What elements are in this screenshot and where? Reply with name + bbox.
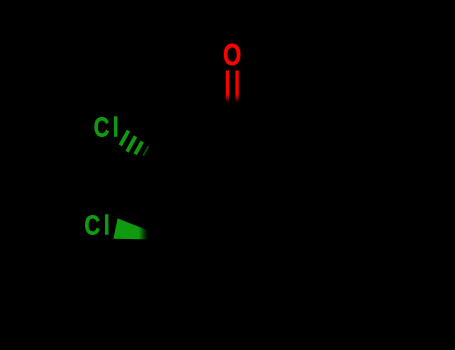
- svg-text:O: O: [223, 37, 241, 72]
- svg-text:C: C: [94, 112, 110, 143]
- svg-text:C: C: [84, 210, 100, 241]
- svg-text:l: l: [104, 210, 110, 241]
- svg-text:l: l: [113, 112, 119, 143]
